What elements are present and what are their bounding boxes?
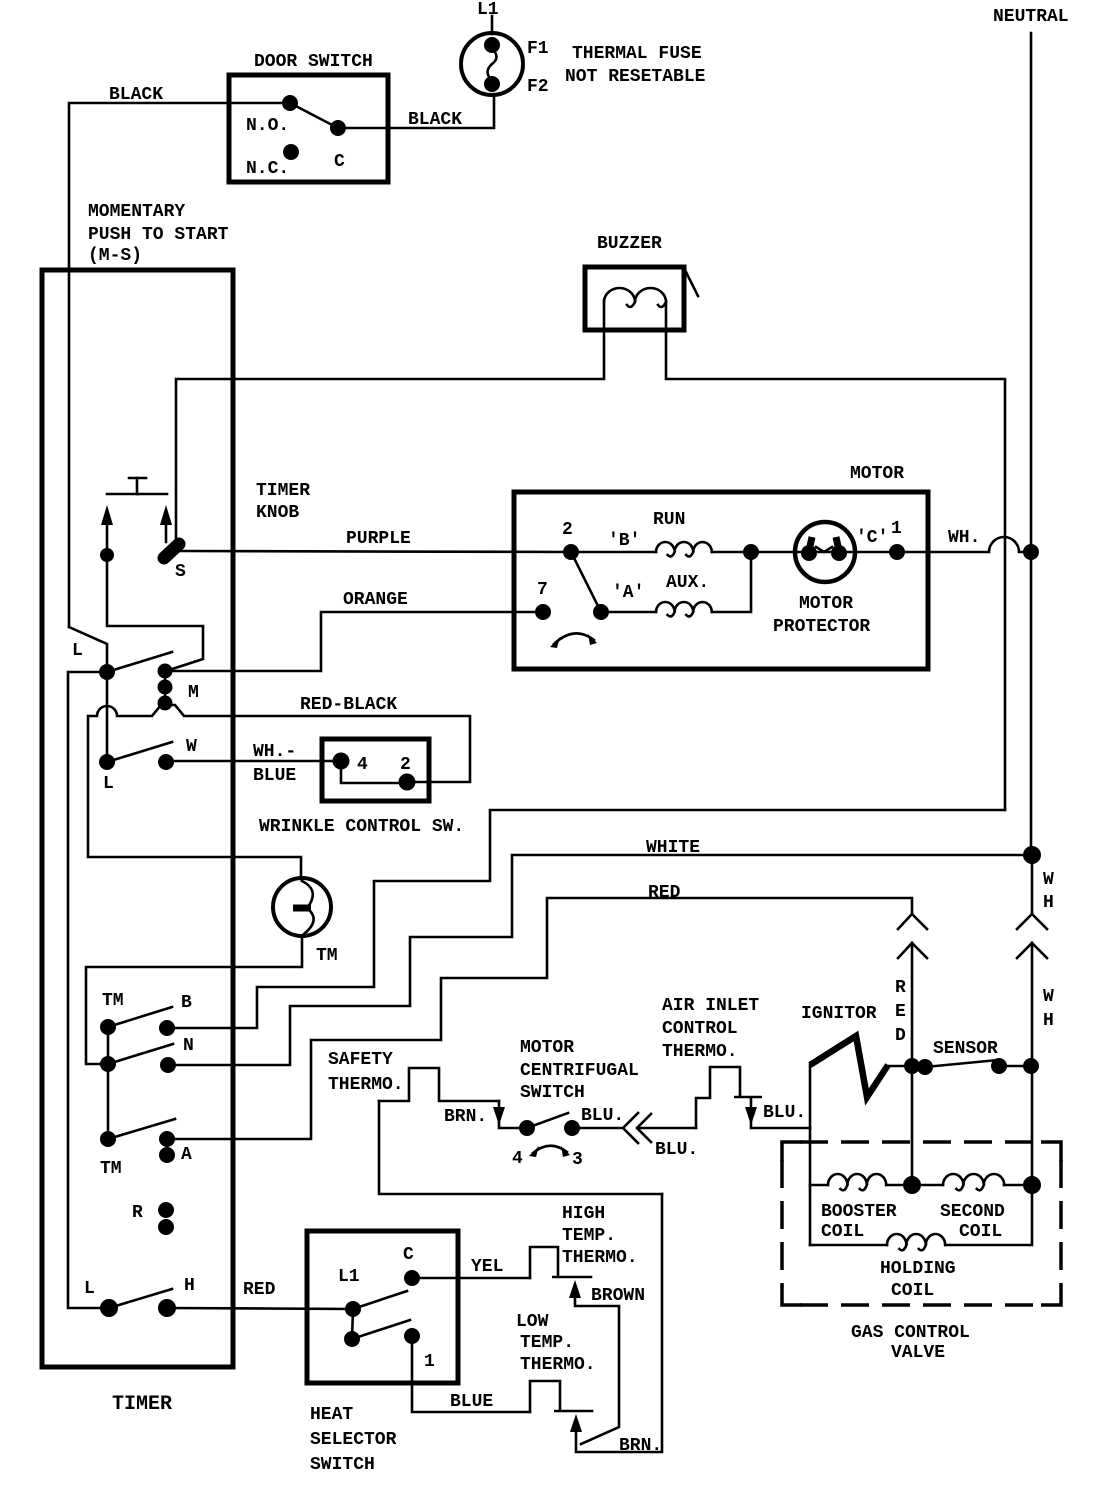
sensor xyxy=(904,1058,1039,1075)
contact R pair xyxy=(132,1202,174,1235)
svg-text:HOLDING: HOLDING xyxy=(880,1259,956,1279)
second coil xyxy=(912,1174,1032,1242)
label THERMAL FUSE NOT RESETABLE xyxy=(565,44,706,87)
svg-text:L1: L1 xyxy=(338,1267,360,1287)
svg-text:'B': 'B' xyxy=(608,531,640,551)
svg-text:WRINKLE CONTROL SW.: WRINKLE CONTROL SW. xyxy=(259,817,464,837)
svg-text:GAS CONTROL: GAS CONTROL xyxy=(851,1323,970,1343)
svg-text:WHITE: WHITE xyxy=(646,838,700,858)
label LOW TEMP. THERMO. xyxy=(516,1312,596,1375)
svg-text:W: W xyxy=(186,737,197,757)
wire neutral vertical xyxy=(1030,33,1033,855)
contact H xyxy=(158,1276,195,1317)
svg-text:COIL: COIL xyxy=(821,1222,864,1242)
node run/aux junction xyxy=(743,544,759,560)
contact L (bottom row) xyxy=(84,1279,118,1317)
svg-text:THERMO.: THERMO. xyxy=(562,1248,638,1268)
wrinkle control switch xyxy=(322,739,429,801)
wire red chevron connector (upper) xyxy=(898,914,927,929)
label MOMENTARY PUSH TO START (M-S) xyxy=(88,202,229,266)
wire red-black down to TM motor xyxy=(88,716,301,879)
node second coil junction xyxy=(1023,1176,1041,1194)
wire red arrow connector (lower) xyxy=(898,943,927,1066)
wire brn arrow into low temp thermo xyxy=(570,1194,662,1452)
svg-text:PUSH TO START: PUSH TO START xyxy=(88,225,229,245)
svg-text:MOTOR: MOTOR xyxy=(850,464,904,484)
wire W to wrinkle control 4 xyxy=(166,760,341,763)
svg-text:SENSOR: SENSOR xyxy=(933,1039,998,1059)
svg-text:CENTRIFUGAL: CENTRIFUGAL xyxy=(520,1061,639,1081)
wire N staircase to white xyxy=(168,855,1032,1065)
svg-text:BUZZER: BUZZER xyxy=(597,234,662,254)
motor terminal 7 xyxy=(535,580,551,620)
svg-text:SWITCH: SWITCH xyxy=(310,1455,375,1475)
svg-text:BLUE: BLUE xyxy=(253,766,296,786)
svg-text:TIMER: TIMER xyxy=(256,481,310,501)
wire safety thermo left leg xyxy=(379,1101,662,1194)
svg-text:MOTOR: MOTOR xyxy=(799,594,853,614)
svg-text:DOOR SWITCH: DOOR SWITCH xyxy=(254,52,373,72)
svg-text:KNOB: KNOB xyxy=(256,503,299,523)
svg-text:A: A xyxy=(181,1145,192,1165)
wire S knob path to M xyxy=(107,555,203,671)
wire blu to connector xyxy=(572,1127,621,1130)
svg-text:SECOND: SECOND xyxy=(940,1202,1005,1222)
motor switch blade 2-A xyxy=(571,552,601,612)
holding coil loop xyxy=(810,1185,1032,1301)
svg-text:YEL: YEL xyxy=(471,1257,503,1277)
svg-text:BLU.: BLU. xyxy=(581,1106,624,1126)
svg-text:R: R xyxy=(895,978,906,998)
svg-text:RUN: RUN xyxy=(653,510,685,530)
svg-text:1: 1 xyxy=(891,519,902,539)
contact TM (N row) xyxy=(100,1056,116,1072)
high temp thermostat xyxy=(530,1247,591,1278)
label TIMER KNOB xyxy=(256,481,310,523)
svg-text:VALVE: VALVE xyxy=(891,1343,945,1363)
wire aux to run junction xyxy=(712,552,751,612)
heat selector switch box xyxy=(307,1231,458,1383)
svg-text:BLU.: BLU. xyxy=(655,1140,698,1160)
wire brn arrow into centrifugal switch xyxy=(493,1101,527,1128)
timer knob arrow right xyxy=(160,505,172,542)
door switch DS1 xyxy=(229,75,388,182)
thermal fuse F1-F2 xyxy=(461,33,523,95)
label WH (vertical upper) xyxy=(1043,870,1054,913)
centrifugal switch blade xyxy=(527,1113,568,1128)
label HIGH TEMP. THERMO. xyxy=(562,1204,638,1268)
wire wh down to second junction xyxy=(1031,1066,1034,1185)
wire black feed to door switch xyxy=(69,103,290,627)
svg-text:TM: TM xyxy=(100,1159,122,1179)
wire purple xyxy=(179,551,571,552)
svg-text:WH.: WH. xyxy=(948,528,980,548)
contact S xyxy=(164,544,186,582)
svg-text:1: 1 xyxy=(424,1352,435,1372)
wire A staircase to red xyxy=(167,898,912,1139)
low temp thermostat xyxy=(530,1381,592,1412)
aux winding AUX xyxy=(601,573,712,616)
timer knob arrow left xyxy=(100,505,114,562)
wire junction left branch down to L-H row xyxy=(68,672,109,1308)
timer motor TM xyxy=(273,878,338,966)
contact TM (B row) xyxy=(100,991,124,1035)
label WH.-BLUE xyxy=(253,742,296,786)
svg-text:BLACK: BLACK xyxy=(408,110,462,130)
svg-text:4: 4 xyxy=(512,1149,523,1169)
svg-text:CONTROL: CONTROL xyxy=(662,1019,738,1039)
svg-text:F2: F2 xyxy=(527,77,549,97)
wire wh arrow connector (lower) xyxy=(1017,943,1047,1066)
node booster junction xyxy=(903,1176,921,1194)
contact M stack xyxy=(158,664,199,711)
run winding RUN xyxy=(571,510,712,556)
svg-text:ORANGE: ORANGE xyxy=(343,590,408,610)
svg-text:S: S xyxy=(175,562,186,582)
switch blade L-W xyxy=(107,742,172,762)
safety thermostat xyxy=(379,1068,499,1101)
svg-text:AIR INLET: AIR INLET xyxy=(662,996,759,1016)
node L1 xyxy=(477,0,499,34)
motor protector xyxy=(751,522,897,582)
switch blade L-H xyxy=(109,1289,172,1308)
svg-text:BRN.: BRN. xyxy=(619,1436,662,1456)
svg-text:MOMENTARY: MOMENTARY xyxy=(88,202,185,222)
svg-text:TIMER: TIMER xyxy=(112,1393,172,1416)
svg-text:WH.-: WH.- xyxy=(253,742,296,762)
svg-text:E: E xyxy=(895,1002,906,1022)
label WH (vertical lower) xyxy=(1043,987,1054,1031)
svg-text:3: 3 xyxy=(572,1150,583,1170)
motor box xyxy=(514,492,928,669)
motor terminal 2 xyxy=(562,520,579,560)
air inlet thermo arrow xyxy=(745,1107,757,1125)
centrifugal switch contact 4 xyxy=(519,1120,535,1136)
svg-text:2: 2 xyxy=(400,755,411,775)
wire B staircase to buzzer drop xyxy=(167,810,1005,1028)
svg-text:RED: RED xyxy=(648,883,681,903)
svg-text:M: M xyxy=(188,683,199,703)
heat selector terminal 1 xyxy=(404,1328,435,1372)
svg-text:L: L xyxy=(84,1279,95,1299)
motor terminal A node xyxy=(593,604,609,620)
svg-text:IGNITOR: IGNITOR xyxy=(801,1004,877,1024)
svg-text:BRN.: BRN. xyxy=(444,1107,487,1127)
node L junction (push to start) xyxy=(72,641,115,680)
svg-text:TEMP.: TEMP. xyxy=(520,1333,574,1353)
svg-text:THERMO.: THERMO. xyxy=(520,1355,596,1375)
switch blade L-M xyxy=(107,652,172,672)
wire red H to heat selector L1 xyxy=(167,1308,353,1309)
svg-text:F1: F1 xyxy=(527,39,549,59)
svg-text:'A': 'A' xyxy=(612,583,644,603)
svg-text:SAFETY: SAFETY xyxy=(328,1050,393,1070)
svg-text:C: C xyxy=(334,152,345,172)
svg-text:H: H xyxy=(1043,1011,1054,1031)
wire wh chevron connector (upper) xyxy=(1017,855,1047,929)
wire red-black with hop and tap to M xyxy=(89,705,470,782)
wire black bend into junction xyxy=(69,627,107,762)
switch blade lower-1 xyxy=(352,1320,410,1339)
svg-text:AUX.: AUX. xyxy=(666,573,709,593)
label GAS CONTROL VALVE xyxy=(851,1323,970,1363)
svg-text:(M-S): (M-S) xyxy=(88,246,142,266)
svg-text:TEMP.: TEMP. xyxy=(562,1226,616,1246)
switch blade TM-B xyxy=(108,1007,172,1027)
gas control valve dashed box xyxy=(782,1142,1061,1305)
svg-text:TM: TM xyxy=(316,946,338,966)
svg-text:H: H xyxy=(1043,893,1054,913)
centrifugal actuator arc 4-3 xyxy=(512,1146,583,1170)
svg-text:C: C xyxy=(403,1245,414,1265)
label MOTOR PROTECTOR xyxy=(773,594,870,637)
svg-text:COIL: COIL xyxy=(959,1222,1002,1242)
contact TM (A row) xyxy=(100,1131,122,1179)
svg-text:BROWN: BROWN xyxy=(591,1286,645,1306)
air inlet control thermostat xyxy=(696,1067,810,1128)
wire WH. with hop to neutral xyxy=(897,537,1031,552)
svg-text:SELECTOR: SELECTOR xyxy=(310,1430,397,1450)
svg-text:D: D xyxy=(895,1026,906,1046)
label AIR INLET CONTROL THERMO. xyxy=(662,996,759,1062)
svg-text:L1: L1 xyxy=(477,0,499,20)
svg-text:HIGH: HIGH xyxy=(562,1204,605,1224)
wire ignitor circuit left leg xyxy=(809,1065,812,1245)
svg-text:THERMAL FUSE: THERMAL FUSE xyxy=(572,44,702,64)
wire fuse to door switch C xyxy=(340,95,494,128)
switch blade TM-A xyxy=(108,1119,175,1139)
contact B xyxy=(159,993,192,1036)
wire TM motor bottom loop xyxy=(86,936,302,1064)
svg-text:NEUTRAL: NEUTRAL xyxy=(993,7,1069,27)
booster coil xyxy=(810,1174,912,1242)
motor terminal 1 / 'C' xyxy=(856,519,905,560)
svg-text:HEAT: HEAT xyxy=(310,1405,353,1425)
svg-text:L: L xyxy=(72,641,83,661)
svg-text:MOTOR: MOTOR xyxy=(520,1038,574,1058)
svg-text:LOW: LOW xyxy=(516,1312,549,1332)
switch blade TM-N xyxy=(108,1044,173,1064)
timer box xyxy=(42,270,233,1367)
wire buzzer right leg to drop xyxy=(666,302,1005,810)
svg-text:THERMO.: THERMO. xyxy=(662,1042,738,1062)
svg-text:'C': 'C' xyxy=(856,528,888,548)
svg-text:H: H xyxy=(184,1276,195,1296)
svg-text:N.O.: N.O. xyxy=(246,116,289,136)
label MOTOR CENTRIFUGAL SWITCH xyxy=(520,1038,639,1103)
svg-text:R: R xyxy=(132,1203,143,1223)
buzzer BZ1 xyxy=(585,267,698,330)
heat selector terminal L1 xyxy=(338,1267,361,1317)
svg-text:B: B xyxy=(181,993,192,1013)
wire L1 pole link xyxy=(352,1309,353,1339)
timer knob T symbol xyxy=(107,478,167,494)
svg-text:L: L xyxy=(103,774,114,794)
wire brown arrow into high temp thermo xyxy=(569,1280,619,1444)
svg-text:BLUE: BLUE xyxy=(450,1392,493,1412)
heat selector terminal C xyxy=(403,1245,420,1286)
svg-text:2: 2 xyxy=(562,520,573,540)
wire buzzer left leg xyxy=(176,300,604,543)
wire orange xyxy=(165,612,543,671)
svg-text:COIL: COIL xyxy=(891,1281,934,1301)
ignitor xyxy=(810,1036,912,1097)
svg-text:W: W xyxy=(1043,987,1054,1007)
switch blade L1-C xyxy=(353,1291,407,1309)
heat selector lower pole xyxy=(344,1331,360,1347)
svg-text:SWITCH: SWITCH xyxy=(520,1083,585,1103)
svg-text:THERMO.: THERMO. xyxy=(328,1075,404,1095)
svg-text:RED-BLACK: RED-BLACK xyxy=(300,695,397,715)
svg-text:PURPLE: PURPLE xyxy=(346,529,411,549)
contact N xyxy=(160,1036,194,1073)
svg-text:TM: TM xyxy=(102,991,124,1011)
svg-text:PROTECTOR: PROTECTOR xyxy=(773,617,870,637)
inline connector chevrons xyxy=(623,1113,696,1143)
centrifugal actuator arc (motor) xyxy=(554,633,594,644)
svg-text:W: W xyxy=(1043,870,1054,890)
contact W xyxy=(158,737,197,770)
svg-text:7: 7 xyxy=(537,580,548,600)
svg-text:BOOSTER: BOOSTER xyxy=(821,1202,897,1222)
svg-text:N.C.: N.C. xyxy=(246,159,289,179)
node motor-neutral junction xyxy=(1023,544,1039,560)
svg-text:NOT RESETABLE: NOT RESETABLE xyxy=(565,67,706,87)
wire blue to low temp thermo xyxy=(412,1336,530,1412)
svg-text:BLU.: BLU. xyxy=(763,1103,806,1123)
wire red down to booster junction xyxy=(911,1066,914,1185)
node NEUTRAL xyxy=(993,7,1069,27)
centrifugal switch contact 3 xyxy=(564,1120,580,1136)
contact L (lower) xyxy=(99,754,115,794)
svg-text:4: 4 xyxy=(357,755,368,775)
node white-neutral junction xyxy=(1023,846,1041,864)
contact A xyxy=(159,1131,192,1165)
svg-text:N: N xyxy=(183,1036,194,1056)
wire yel to high temp thermo xyxy=(412,1277,530,1280)
label RED (vertical) xyxy=(895,978,906,1046)
wire TM stack vertical xyxy=(107,1027,110,1139)
label HEAT SELECTOR SWITCH xyxy=(310,1405,397,1475)
label SAFETY THERMO. xyxy=(328,1050,404,1095)
svg-text:RED: RED xyxy=(243,1280,276,1300)
